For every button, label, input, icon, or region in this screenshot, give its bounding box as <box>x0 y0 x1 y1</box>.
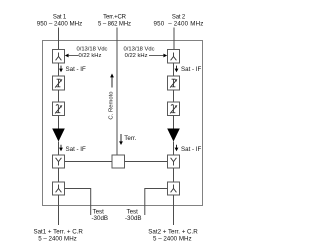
power inserter PI1 (Sat1 LNB feed) <box>53 50 65 64</box>
svg-text:5 – 2400 MHz: 5 – 2400 MHz <box>38 236 77 243</box>
svg-text:Sat - IF: Sat - IF <box>181 66 202 73</box>
remote control up arrow <box>110 74 114 88</box>
wire amplifier2 to combiner2 <box>173 142 175 156</box>
svg-text:Sat - IF: Sat - IF <box>66 146 87 153</box>
wire test tap 2 <box>145 189 168 216</box>
wire combiner2 to splitter2 <box>173 168 175 182</box>
wire attenuator2 to equalizer2 <box>173 90 175 102</box>
wire equalizer2 to amplifier2 <box>173 116 175 129</box>
adjustable attenuator AT2 <box>168 76 180 90</box>
wire PI1 to attenuator <box>58 63 60 76</box>
node Terr.+CR input label <box>98 15 131 28</box>
svg-text:Sat - IF: Sat - IF <box>66 66 87 73</box>
node output Sat1 label <box>33 228 83 242</box>
svg-text:Terr.: Terr. <box>124 135 136 142</box>
wire output Sat1 <box>58 195 60 225</box>
svg-text:0/13/18 Vdc: 0/13/18 Vdc <box>77 46 108 52</box>
Sat-IF flow arrow (left upper) <box>59 66 86 74</box>
svg-text:0/22 kHz: 0/22 kHz <box>125 53 148 59</box>
svg-text:-30dB: -30dB <box>92 215 109 222</box>
svg-text:950 – 2400 MHz: 950 – 2400 MHz <box>37 21 82 28</box>
terrestrial distribution box U1 <box>112 155 125 168</box>
Terr flow down arrow <box>119 134 137 145</box>
wire attenuator to equalizer <box>58 90 60 102</box>
wire Sat1 input <box>58 28 60 50</box>
wire test tap 1 <box>65 189 91 216</box>
Sat-IF flow arrow (right lower) <box>175 145 202 153</box>
amplifier A1 (Sat1) <box>52 129 65 142</box>
LNB control input arrow (left) <box>65 46 108 59</box>
wire amplifier to combiner <box>58 142 60 156</box>
svg-text:C. Remoto: C. Remoto <box>109 91 115 120</box>
svg-text:0/13/18 Vdc: 0/13/18 Vdc <box>124 46 155 52</box>
svg-text:Sat1 + Terr. + C.R: Sat1 + Terr. + C.R <box>33 228 83 235</box>
wire Sat2 input <box>173 28 175 50</box>
svg-text:950 – 2400 MHz: 950 – 2400 MHz <box>153 21 203 28</box>
combiner Y2 (Sat2 + Terr) <box>168 155 180 168</box>
combiner Y1 (Sat1 + Terr) <box>53 155 65 168</box>
node Sat 2 input label <box>153 15 203 28</box>
wire combiner to splitter <box>58 168 60 182</box>
svg-text:Sat2 + Terr. + C.R: Sat2 + Terr. + C.R <box>148 228 198 235</box>
node Test 1 label <box>92 209 109 222</box>
amplifier A2 (Sat2) <box>167 129 180 142</box>
svg-text:Sat - IF: Sat - IF <box>181 146 202 153</box>
svg-text:0/22 kHz: 0/22 kHz <box>79 53 102 59</box>
Sat-IF flow arrow (right upper) <box>175 66 202 74</box>
wire equalizer to amplifier <box>58 116 60 129</box>
node Test 2 label <box>125 209 142 222</box>
node Sat 1 input label <box>37 15 82 28</box>
splitter SP2 (test tap) <box>168 182 180 195</box>
enclosure border <box>43 41 203 206</box>
splitter SP1 (test tap) <box>53 182 65 195</box>
svg-text:-30dB: -30dB <box>125 215 142 222</box>
wire Terr input <box>116 28 118 162</box>
Sat-IF flow arrow (left lower) <box>59 145 86 153</box>
adjustable attenuator AT1 <box>53 76 65 90</box>
wire output Sat2 <box>173 195 175 225</box>
svg-text:5 – 862 MHz: 5 – 862 MHz <box>98 22 131 28</box>
adjustable equalizer EQ1 <box>53 102 65 116</box>
wire PI2 to attenuator2 <box>173 63 175 76</box>
LNB control input arrow (right) <box>124 46 168 59</box>
node output Sat2 label <box>148 228 198 242</box>
svg-text:Sat 1: Sat 1 <box>53 15 67 21</box>
power inserter PI2 (Sat2 LNB feed) <box>168 50 180 64</box>
adjustable equalizer EQ2 <box>168 102 180 116</box>
svg-text:Terr.+CR: Terr.+CR <box>103 15 126 21</box>
svg-text:5 – 2400 MHz: 5 – 2400 MHz <box>153 236 192 243</box>
wire U1 to combiner2 <box>125 161 168 163</box>
svg-text:Sat 2: Sat 2 <box>172 15 186 21</box>
wire combiner1 to U1 <box>65 161 113 163</box>
